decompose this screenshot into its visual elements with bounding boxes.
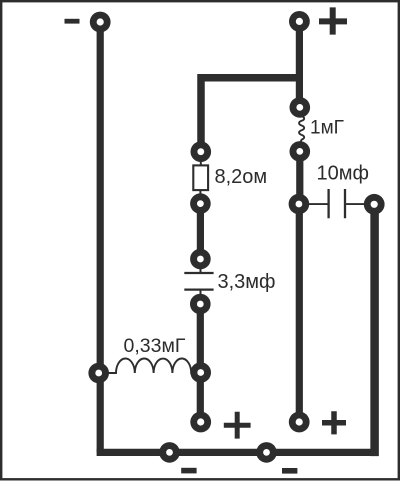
wire: right branch from node B3 down to right speaker plus terminal (296, 204, 303, 422)
node A4 (190, 294, 211, 315)
resistor R1 8.2 ohm (199, 152, 201, 204)
node B2 (290, 141, 311, 162)
wire: middle branch from capacitor C1 down to mid speaker plus terminal (197, 304, 204, 422)
wire: middle branch between resistor and capacitor C1 (197, 203, 204, 258)
polarity minus (top input) (65, 19, 80, 24)
wire: right branch between inductor L1 and node B3 (296, 152, 303, 204)
svg-text:3,3мф: 3,3мф (218, 271, 276, 293)
polarity plus (mid speaker) (224, 412, 251, 439)
inductor L1 1mH vertical coil (299, 115, 304, 142)
node L1-left (junction on left wire) (88, 363, 109, 384)
polarity plus (right speaker) (322, 411, 346, 434)
node A5 (190, 362, 211, 383)
polarity minus (right speaker) (282, 468, 297, 474)
node B3 (289, 194, 310, 215)
node A2 (190, 193, 211, 214)
inductor L2 0.33mH horizontal coil (99, 359, 201, 373)
wire: right vertical from bottom-right corner up to capacitor output terminal (370, 204, 379, 456)
node B1 (290, 97, 311, 118)
node A1 (191, 141, 212, 162)
capacitor C2 10uF (299, 203, 374, 205)
terminal mid speaker plus (190, 412, 211, 433)
polarity minus (mid speaker) (181, 468, 196, 474)
polarity plus (top input) (319, 7, 347, 34)
wire: plus input vertical down to node B1 (296, 21, 303, 107)
node A3 (190, 249, 211, 270)
terminal input minus (90, 12, 111, 33)
svg-text:10мф: 10мф (317, 163, 369, 185)
terminal output right (after C2) (364, 194, 385, 215)
wire: bottom horizontal bus (97, 449, 375, 456)
capacitor C1 3.3uF (200, 259, 202, 304)
svg-text:0,33мГ: 0,33мГ (124, 335, 186, 357)
terminal right speaker plus (289, 412, 310, 433)
wire: left vertical from minus input terminal down to bottom-left corner (97, 22, 104, 452)
terminal input plus (289, 11, 310, 32)
svg-text:8,2ом: 8,2ом (215, 166, 268, 188)
node bottom bus 2 (right speaker minus) (256, 442, 277, 463)
wire: top horizontal branch with corner down to node A1 (201, 78, 299, 152)
node bottom bus 1 (mid speaker minus) (159, 442, 180, 463)
svg-text:1мГ: 1мГ (310, 118, 344, 139)
